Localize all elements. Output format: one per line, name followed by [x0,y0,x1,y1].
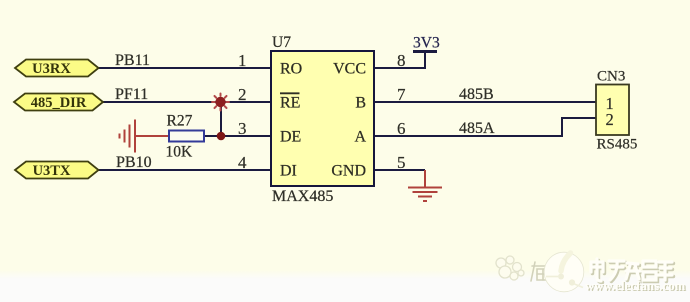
svg-text:2: 2 [606,110,614,129]
svg-text:DE: DE [280,129,301,146]
svg-text:7: 7 [397,85,406,104]
svg-text:MAX485: MAX485 [272,188,333,205]
svg-text:U3RX: U3RX [32,61,71,77]
svg-text:4: 4 [238,153,247,172]
svg-text:2: 2 [238,85,247,104]
svg-text:485B: 485B [459,86,494,103]
svg-text:R27: R27 [167,113,193,130]
svg-text:PF11: PF11 [115,86,148,103]
svg-text:U7: U7 [272,34,291,51]
svg-text:10K: 10K [166,144,194,161]
svg-text:GND: GND [331,163,366,180]
svg-text:485A: 485A [459,120,495,137]
svg-text:VCC: VCC [333,61,366,78]
svg-text:1: 1 [238,51,247,70]
svg-text:6: 6 [397,119,406,138]
svg-text:8: 8 [397,51,406,70]
svg-text:PB11: PB11 [115,52,150,69]
svg-text:CN3: CN3 [597,69,625,85]
svg-text:RO: RO [280,61,302,78]
svg-text:DI: DI [280,163,297,180]
svg-text:3V3: 3V3 [413,35,440,52]
svg-text:485_DIR: 485_DIR [31,95,87,111]
svg-text:5: 5 [397,153,406,172]
svg-text:U3TX: U3TX [33,163,71,179]
svg-text:A: A [354,129,366,146]
svg-text:RS485: RS485 [597,137,638,153]
svg-text:B: B [355,95,366,112]
svg-text:www.elecfans.com: www.elecfans.com [585,279,686,293]
svg-text:3: 3 [238,119,247,138]
svg-text:RE: RE [280,95,300,112]
svg-text:PB10: PB10 [116,154,152,171]
